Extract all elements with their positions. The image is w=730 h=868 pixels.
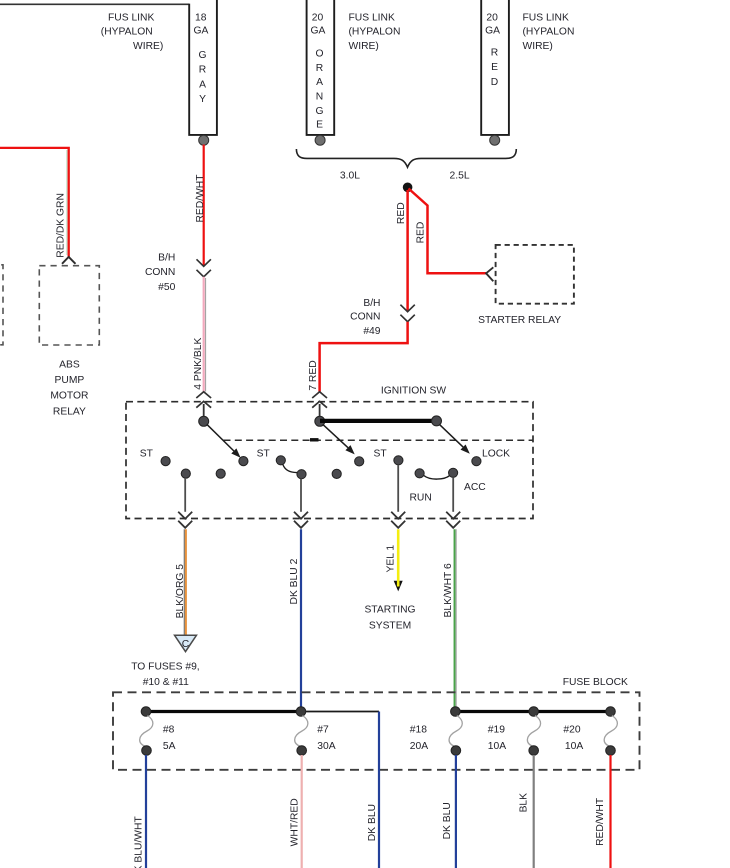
svg-text:FUS LINK: FUS LINK xyxy=(349,13,395,24)
switch arm 4 (LOCK) xyxy=(439,424,463,447)
switch bar (thick) xyxy=(320,419,437,423)
svg-text:B/H: B/H xyxy=(158,252,175,263)
node: red splice xyxy=(403,183,413,193)
svg-text:ABS: ABS xyxy=(59,359,80,370)
svg-text:#10 & #11: #10 & #11 xyxy=(143,677,189,688)
switch contact RUN xyxy=(394,456,403,465)
svg-text:R: R xyxy=(491,48,498,59)
switch link ACC xyxy=(424,475,450,479)
ignition switch box xyxy=(126,402,533,519)
switch contact LOCK xyxy=(472,457,481,466)
wire BLK xyxy=(533,755,535,868)
wire RED/WHT xyxy=(203,145,205,266)
fuse #19 xyxy=(527,716,540,747)
svg-text:RED: RED xyxy=(396,202,407,224)
svg-text:D: D xyxy=(491,77,498,88)
connector exit 3 (YEL) xyxy=(391,512,405,519)
svg-text:FUSE BLOCK: FUSE BLOCK xyxy=(563,677,628,688)
junction dot bus2 left xyxy=(451,707,461,717)
connector fork at ABS relay xyxy=(62,257,76,264)
junction dot bus2 mid xyxy=(529,707,539,717)
wire 7 RED xyxy=(320,322,408,392)
switch link pole2 xyxy=(283,464,298,472)
svg-text:B/H: B/H xyxy=(363,298,380,309)
wire DK BLU (fuse 18) xyxy=(455,755,457,868)
svg-text:STARTING: STARTING xyxy=(364,605,415,616)
connector exit 4 (BLK/WHT) xyxy=(446,512,460,519)
bold dash mark xyxy=(310,438,319,441)
svg-text:(HYPALON: (HYPALON xyxy=(523,27,575,38)
wire RED/DK GRN xyxy=(0,148,69,257)
connector entry (PNK/BLK) xyxy=(196,392,211,398)
svg-text:R: R xyxy=(316,63,323,74)
switch contact right (pole 2) xyxy=(332,469,341,478)
svg-text:20: 20 xyxy=(486,13,498,24)
svg-text:RED/WHT: RED/WHT xyxy=(595,797,606,846)
svg-text:#7: #7 xyxy=(317,724,329,735)
svg-text:LOCK: LOCK xyxy=(482,449,510,460)
wire DK BLU (drop at fuse block) xyxy=(378,712,380,868)
switch contact mid (pole 1) xyxy=(216,469,225,478)
inner dashed partition xyxy=(224,439,534,441)
svg-text:18: 18 xyxy=(195,13,207,24)
svg-text:ST: ST xyxy=(257,449,271,460)
starter relay box xyxy=(496,245,574,304)
svg-text:BLK/ORG 5: BLK/ORG 5 xyxy=(175,564,186,619)
connector exit 1 (BLK/ORG) xyxy=(178,512,192,519)
arrowhead to starting system xyxy=(394,581,403,592)
wire bus1 to DK BLU drop xyxy=(301,711,379,713)
svg-text:7 RED: 7 RED xyxy=(308,360,319,390)
wire WHT/RED xyxy=(301,755,303,868)
svg-text:WHT/RED: WHT/RED xyxy=(290,798,301,846)
junction dot bus2 right xyxy=(606,707,616,717)
terminal dot: orange link xyxy=(315,135,325,145)
svg-text:3.0L: 3.0L xyxy=(340,171,360,182)
svg-text:IGNITION SW: IGNITION SW xyxy=(381,386,446,397)
svg-text:2.5L: 2.5L xyxy=(450,171,470,182)
wire ACC output xyxy=(452,477,454,512)
svg-text:10A: 10A xyxy=(488,741,506,752)
svg-text:4 PNK/BLK: 4 PNK/BLK xyxy=(193,338,204,390)
brace joining orange and red links xyxy=(296,149,516,167)
svg-text:GA: GA xyxy=(194,26,209,37)
switch contact left (pole 1) xyxy=(161,457,170,466)
switch arm 3 xyxy=(323,424,348,447)
svg-text:FUS LINK: FUS LINK xyxy=(108,13,154,24)
svg-text:#19: #19 xyxy=(488,724,505,735)
svg-text:CONN: CONN xyxy=(350,312,380,323)
svg-text:30A: 30A xyxy=(317,741,335,752)
wire: top-left horizontal stub xyxy=(0,3,189,5)
switch pivot contact (pole 1) xyxy=(199,416,209,426)
switch contact ACC output xyxy=(449,468,458,477)
fuse #18 xyxy=(449,716,462,747)
fuse block box xyxy=(113,692,640,770)
svg-text:A: A xyxy=(199,79,206,90)
bus wire 2 (thick) xyxy=(455,710,610,713)
wire 4 PNK/BLK xyxy=(203,277,205,392)
bus wire 1 (thick) xyxy=(146,710,301,713)
svg-text:BLK: BLK xyxy=(519,793,530,813)
terminal dot: red link xyxy=(490,135,500,145)
svg-text:RED/DK GRN: RED/DK GRN xyxy=(56,193,67,258)
ABS pump motor relay box xyxy=(39,266,99,345)
fuse #8 xyxy=(140,716,153,747)
switch contact ST-right (pole 1) xyxy=(239,457,248,466)
switch contact ACC-left xyxy=(415,469,424,478)
wire RED (node to conn #49) xyxy=(406,190,409,311)
switch pivot contact (pole 3 right) xyxy=(432,416,442,426)
wire RED/WHT (fuse 20) xyxy=(609,755,611,868)
svg-text:#50: #50 xyxy=(158,282,175,293)
svg-text:A: A xyxy=(316,77,323,88)
svg-text:WIRE): WIRE) xyxy=(133,41,163,52)
svg-text:20: 20 xyxy=(312,13,324,24)
svg-text:G: G xyxy=(198,50,206,61)
connector B/H #49 xyxy=(400,305,414,312)
partial dashed box at left edge xyxy=(0,265,3,345)
svg-text:O: O xyxy=(315,48,323,59)
fusible link box 18 GA GRAY xyxy=(189,0,217,135)
svg-text:WIRE): WIRE) xyxy=(523,41,553,52)
switch pivot contact (pole 3 left) xyxy=(315,416,325,426)
switch contact output (pole 1) xyxy=(181,469,190,478)
svg-text:RED: RED xyxy=(415,222,426,244)
svg-text:DK BLU 2: DK BLU 2 xyxy=(289,558,300,604)
svg-text:STARTER RELAY: STARTER RELAY xyxy=(478,315,561,326)
svg-text:5A: 5A xyxy=(163,741,176,752)
svg-text:10A: 10A xyxy=(565,741,583,752)
connector exit 2 (DK BLU) xyxy=(294,512,308,519)
wire BLK/WHT 6 xyxy=(454,529,456,710)
svg-text:MOTOR: MOTOR xyxy=(50,391,88,402)
svg-text:ST: ST xyxy=(140,449,154,460)
wire RUN output xyxy=(397,465,399,512)
svg-text:C: C xyxy=(182,639,190,650)
svg-text:#18: #18 xyxy=(410,724,427,735)
svg-text:#8: #8 xyxy=(163,724,175,735)
wire DK BLU/WHT xyxy=(145,755,147,868)
svg-text:E: E xyxy=(491,62,498,73)
svg-text:TO FUSES #9,: TO FUSES #9, xyxy=(131,661,199,672)
svg-text:FUS LINK: FUS LINK xyxy=(523,13,569,24)
svg-text:#20: #20 xyxy=(563,724,580,735)
svg-text:SYSTEM: SYSTEM xyxy=(369,620,411,631)
svg-text:PUMP: PUMP xyxy=(55,375,85,386)
connector entry (7 RED) xyxy=(312,392,327,398)
fuse #7 xyxy=(295,716,308,747)
junction dot bus1 right xyxy=(296,707,306,717)
svg-text:ST: ST xyxy=(374,449,388,460)
svg-text:YEL 1: YEL 1 xyxy=(386,545,397,573)
svg-text:WIRE): WIRE) xyxy=(349,41,379,52)
wire RED (node to starter relay) xyxy=(409,189,487,274)
svg-text:G: G xyxy=(315,106,323,117)
connector B/H #50 xyxy=(197,259,211,266)
svg-text:20A: 20A xyxy=(410,741,428,752)
svg-text:N: N xyxy=(316,92,323,103)
svg-text:RELAY: RELAY xyxy=(53,406,86,417)
switch arm 1 xyxy=(207,424,234,451)
wire BLK/ORG 5 xyxy=(183,529,185,635)
wire pole1 output xyxy=(184,478,186,512)
connector triangle C xyxy=(175,635,197,651)
svg-text:GA: GA xyxy=(311,26,326,37)
svg-text:(HYPALON: (HYPALON xyxy=(349,27,401,38)
junction dot bus1 left xyxy=(141,707,151,717)
fuse #20 xyxy=(604,716,617,747)
svg-text:ACC: ACC xyxy=(464,482,486,493)
svg-text:R: R xyxy=(199,65,206,76)
svg-text:GA: GA xyxy=(485,26,500,37)
switch contact output (pole 2) xyxy=(297,470,306,479)
connector fork at starter relay xyxy=(486,267,493,281)
svg-text:DK BLU: DK BLU xyxy=(442,802,453,839)
switch contact ST (pole 3) xyxy=(355,457,364,466)
svg-text:RUN: RUN xyxy=(410,493,432,504)
svg-text:E: E xyxy=(316,119,323,130)
fusible link box 20 GA RED xyxy=(481,0,509,135)
switch contact ST (pole 2) xyxy=(276,456,285,465)
svg-text:DK BLU/WHT: DK BLU/WHT xyxy=(134,816,145,868)
wire DK BLU 2 xyxy=(300,529,302,710)
svg-text:BLK/WHT 6: BLK/WHT 6 xyxy=(443,563,454,617)
fusible link box 20 GA ORANGE xyxy=(307,0,335,135)
wire pole2 output xyxy=(300,479,302,512)
svg-text:DK BLU: DK BLU xyxy=(367,804,378,841)
svg-text:#49: #49 xyxy=(363,326,380,337)
svg-text:Y: Y xyxy=(199,94,206,105)
svg-text:CONN: CONN xyxy=(145,267,175,278)
svg-text:(HYPALON: (HYPALON xyxy=(101,27,153,38)
svg-text:RED/WHT: RED/WHT xyxy=(195,174,206,223)
terminal dot: gray link xyxy=(199,135,209,145)
